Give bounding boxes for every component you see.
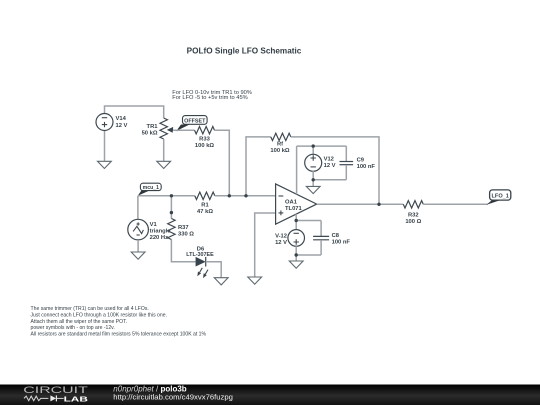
wire R33 to main line [215,130,230,196]
node LFO_1 label [490,190,511,200]
svg-text:V-12: V-12 [275,234,287,240]
resistor R37 [168,219,195,240]
svg-text:C8: C8 [332,233,340,239]
wire V1 bottom [137,240,139,252]
resistor R1 [195,192,215,215]
svg-text:100 Ω: 100 Ω [405,219,421,225]
wire R32 to LFO_1 [423,203,488,205]
wire V12 top rail [297,145,347,147]
wire D6 to ground [206,262,222,278]
svg-text:POLfO Single LFO Schematic: POLfO Single LFO Schematic [187,47,302,56]
svg-text:TR1: TR1 [147,124,159,130]
trimmer TR1 [142,118,178,139]
ground (V1) [131,252,145,259]
footer bar [0,385,540,405]
svg-text:100 kΩ: 100 kΩ [195,143,215,149]
junction Rf branch [244,194,247,197]
svg-text:R32: R32 [408,213,419,219]
svg-text:12 V: 12 V [116,123,128,129]
wire V12 bottom rail [313,179,346,181]
svg-text:12 V: 12 V [275,240,287,246]
svg-text:All resistors are standard met: All resistors are standard metal film re… [31,331,207,337]
svg-text:V12: V12 [324,157,334,163]
svg-text:C9: C9 [357,157,365,163]
svg-text:V1: V1 [150,222,158,228]
wire op-amp output [317,203,404,205]
junction R37 top lead [170,211,173,214]
svg-text:R1: R1 [201,203,209,209]
CircuitLab logo [23,385,88,403]
capacitor C9 [340,146,376,180]
ground (V14) [98,161,112,168]
ground (V12) [306,186,320,193]
junction V-12 top [295,219,298,222]
junction V12 top [312,144,315,147]
junction R37 branch [170,194,173,197]
wire V12 ground stub [312,180,314,187]
wire Rf right branch [291,137,379,204]
wire R1 to op-amp [215,195,276,197]
junction V-12 bottom [295,253,298,256]
wire Rf left branch [246,137,271,196]
svg-text:R37: R37 [178,225,189,231]
node OFFSET flag [176,125,189,132]
node mcu_1 label [140,183,161,191]
voltage source V14 [96,114,128,131]
junction V12 bottom [312,178,315,181]
svg-text:http://circuitlab.com/c49xvx76: http://circuitlab.com/c49xvx76fuzpg [113,393,233,402]
svg-text:220 Hz: 220 Hz [150,235,168,241]
wire main line [138,195,195,197]
capacitor C8 [313,221,350,256]
svg-text:mcu_1: mcu_1 [143,185,160,191]
ground (D6) [214,278,228,285]
svg-text:The same trimmer (TR1) can be: The same trimmer (TR1) can be used for a… [31,306,149,312]
svg-text:12 V: 12 V [324,163,336,169]
svg-text:Attach them all the wiper of t: Attach them all the wiper of the same PO… [31,319,128,325]
node mcu_1 flag [138,191,150,196]
svg-text:100 nF: 100 nF [332,239,351,245]
wire V-12 ground stub [295,255,297,261]
ground (V-12) [289,261,303,268]
svg-text:For LFO -5 to +5v trim to 45%: For LFO -5 to +5v trim to 45% [172,95,247,101]
wire V14 bottom to ground [104,131,106,162]
svg-text:LTL-307EE: LTL-307EE [186,252,214,258]
junction output node [377,203,380,206]
svg-text:power symbols with - on top ar: power symbols with - on top are -12v. [31,325,115,331]
svg-text:47 kΩ: 47 kΩ [197,209,213,215]
svg-text:R33: R33 [199,137,210,143]
wire wiper to R33 [177,129,195,131]
resistor R32 [403,201,423,226]
ground (TR1) [157,161,171,168]
junction R33 branch [228,194,231,197]
wire op-amp plus input to ground [255,213,276,277]
ground (plus input) [248,277,262,284]
source V1 triangle [128,219,172,241]
svg-text:50 kΩ: 50 kΩ [142,131,158,137]
svg-text:LAB: LAB [64,395,89,404]
node OFFSET label [183,116,208,125]
LED D6 [186,246,214,278]
wire R37 top [170,196,172,219]
wire V-12 bottom rail [296,254,321,256]
node LFO_1 flag [487,200,501,205]
svg-text:OA1: OA1 [285,200,298,206]
svg-text:LFO_1: LFO_1 [491,193,508,199]
voltage source V-12 [275,230,304,255]
svg-text:100 nF: 100 nF [357,164,376,170]
svg-text:Just connect each LFO through: Just connect each LFO through a 100K res… [31,313,167,319]
footer credit text [113,384,233,401]
op-amp OA1 [276,184,317,224]
voltage source V12 [305,146,336,180]
svg-text:OFFSET: OFFSET [184,118,206,124]
svg-text:330 Ω: 330 Ω [178,231,194,237]
svg-text:100 kΩ: 100 kΩ [270,148,290,154]
svg-text:Rf: Rf [277,141,283,147]
svg-text:V14: V14 [116,116,127,122]
wire V1 top [137,196,139,220]
wire op-amp V- down [295,214,297,230]
wire V-12 top rail [296,220,321,222]
svg-text:triangle: triangle [150,229,172,235]
svg-text:TL071: TL071 [285,206,303,212]
resistor R33 [195,126,215,149]
bottom notes [31,306,207,337]
wire V14 top to TR1 top [105,106,164,118]
wire TR1 bottom to ground [163,139,165,161]
wire op-amp V+ to V12 rail [296,146,298,194]
resistor Rf [270,133,290,154]
wire R37 bottom to D6 [171,240,195,262]
